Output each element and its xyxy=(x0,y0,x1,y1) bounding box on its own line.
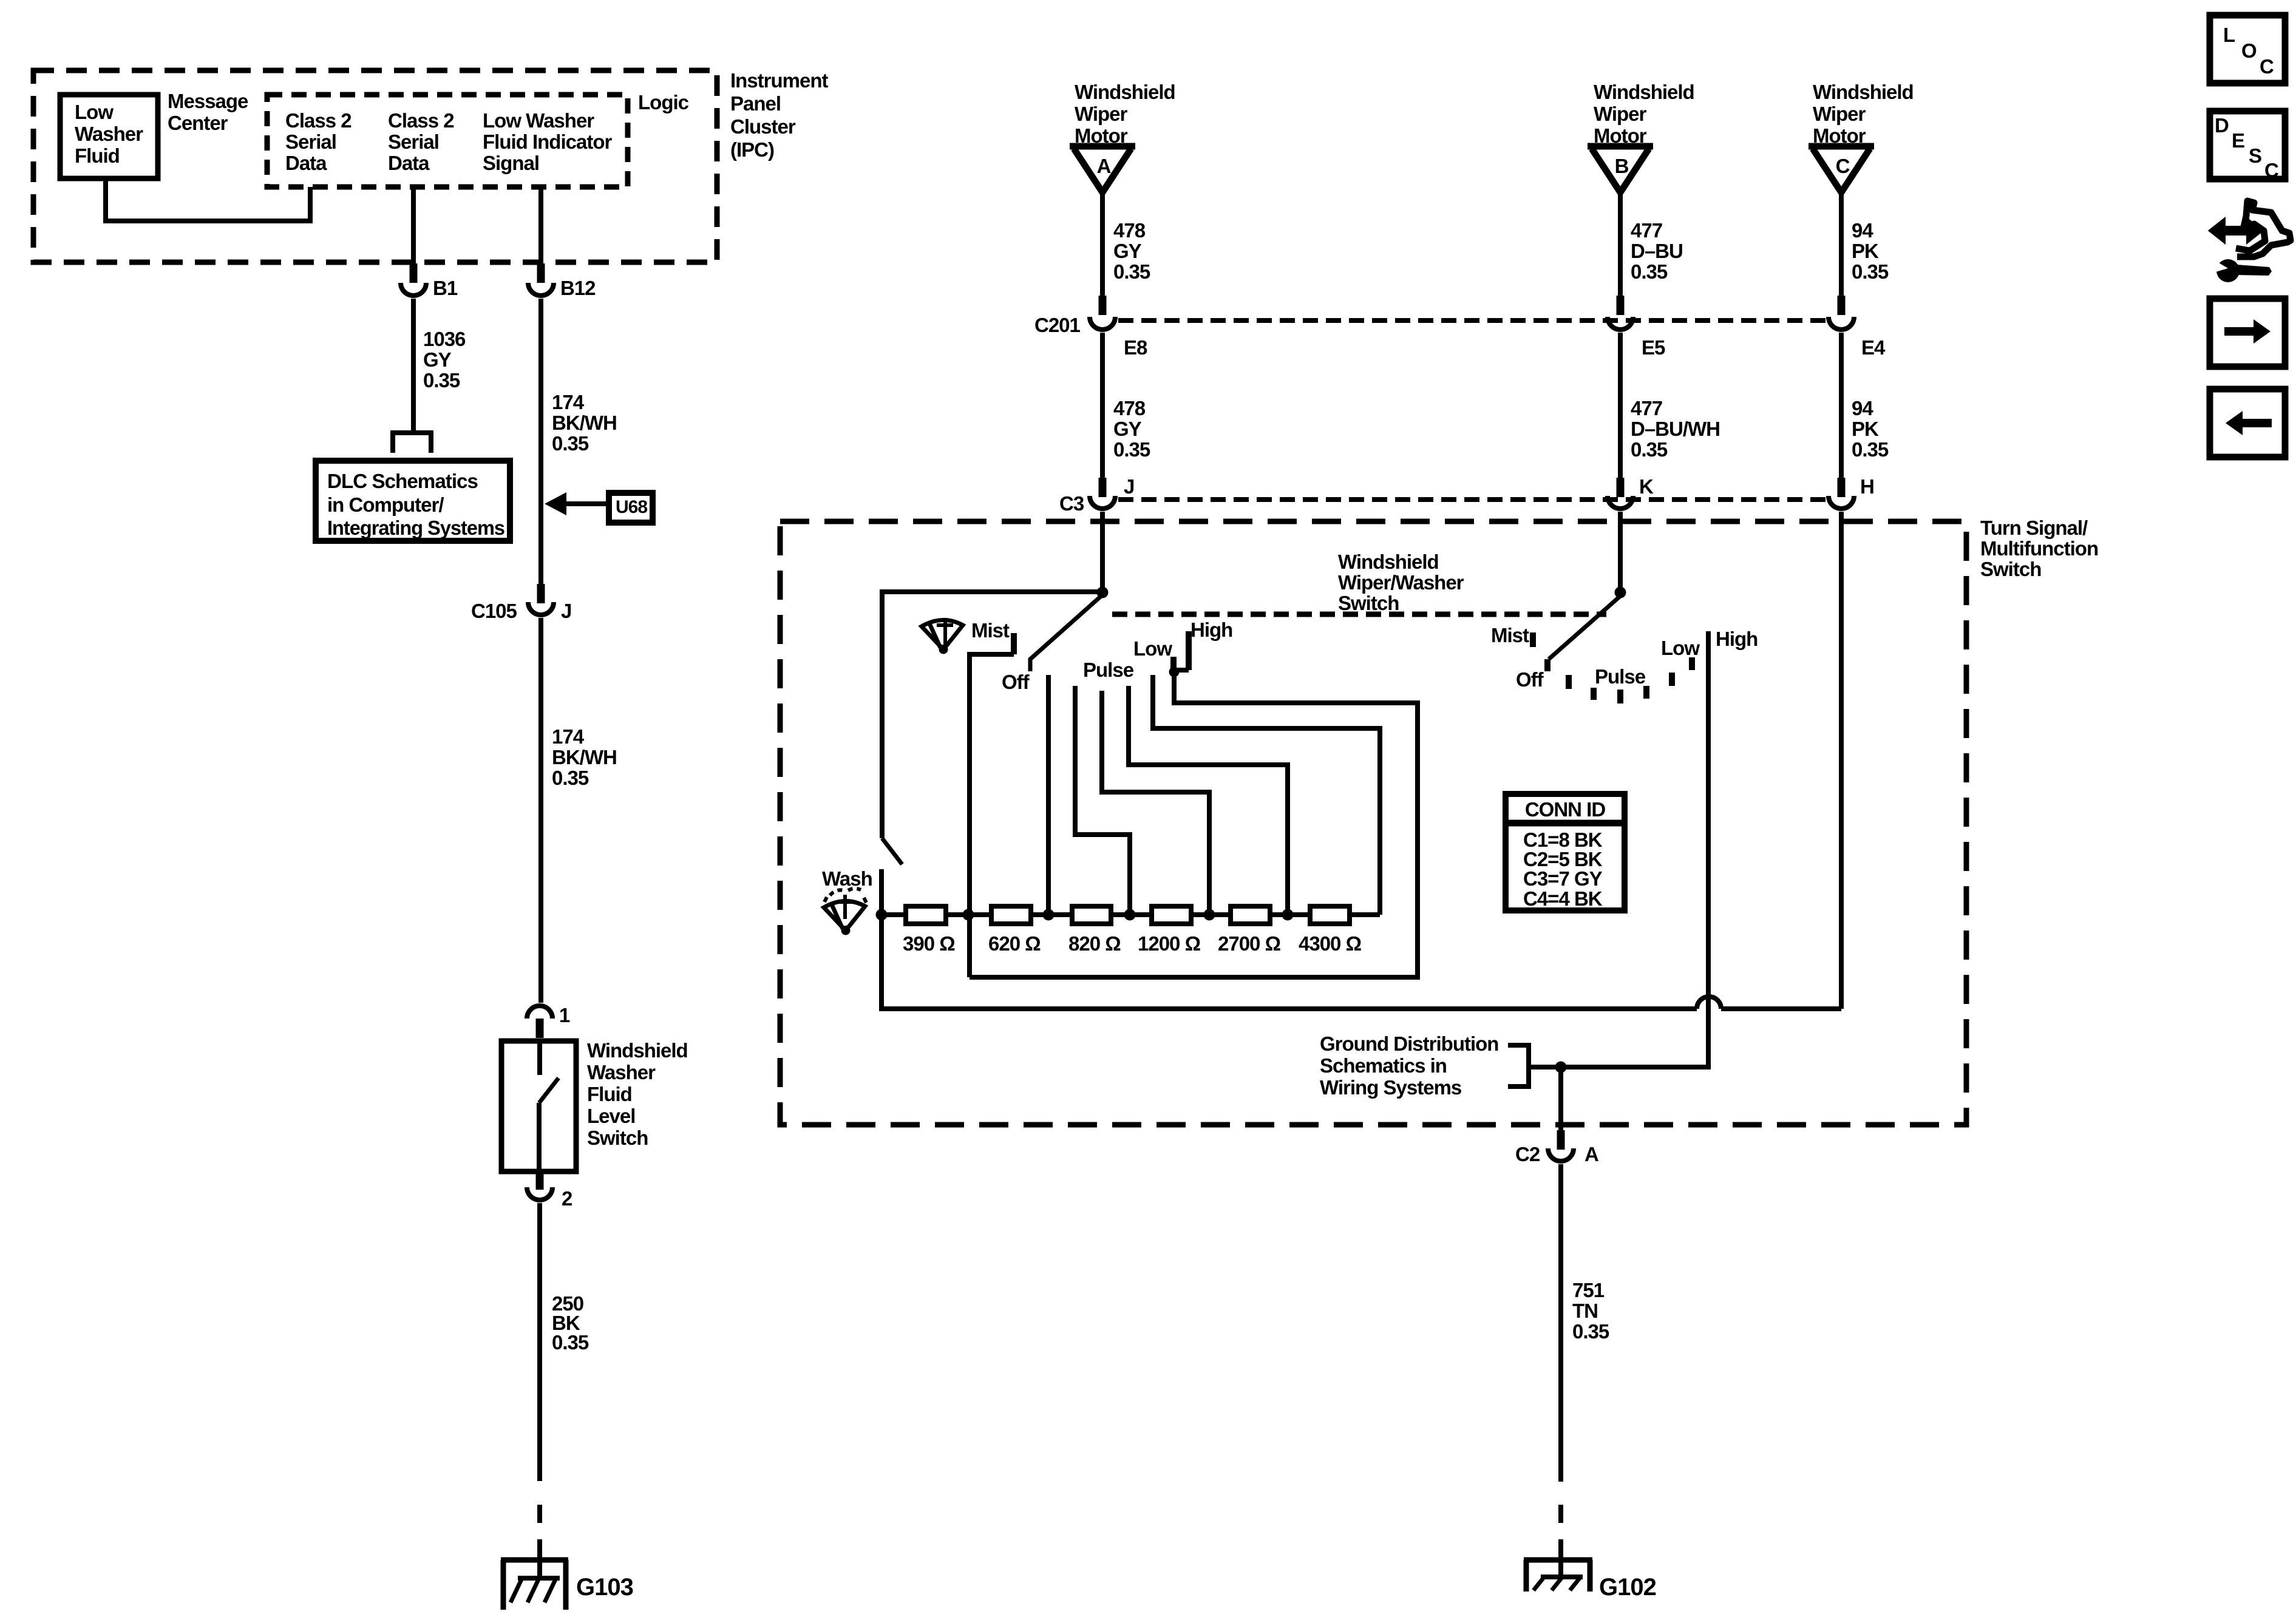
wire 1036 GY to DLC xyxy=(411,299,416,433)
svg-text:C201: C201 xyxy=(1034,314,1081,336)
wire long run to H column xyxy=(1721,1006,1841,1011)
connector B12 xyxy=(528,263,596,299)
node ground distribution junction xyxy=(1555,1062,1567,1073)
label Mist (left) xyxy=(971,619,1010,642)
svg-text:C4=4 BK: C4=4 BK xyxy=(1523,887,1603,910)
resistor 390 ohm xyxy=(903,906,955,955)
svg-text:390 Ω: 390 Ω xyxy=(903,932,955,955)
label Windshield Wiper Motor C xyxy=(1813,81,1914,147)
svg-text:Serial: Serial xyxy=(388,131,439,153)
svg-text:1036: 1036 xyxy=(423,328,466,350)
svg-text:L: L xyxy=(2223,24,2235,46)
back arrow legend box xyxy=(2210,389,2285,457)
node left switch common xyxy=(1097,587,1109,598)
svg-text:in Computer/: in Computer/ xyxy=(327,493,444,516)
High contact line down to ground run xyxy=(1529,631,1708,1067)
svg-text:Class 2: Class 2 xyxy=(388,109,454,132)
svg-text:Off: Off xyxy=(1002,671,1030,693)
svg-text:2700 Ω: 2700 Ω xyxy=(1218,932,1281,955)
node bus off tap xyxy=(1043,909,1055,921)
bus wire xyxy=(881,912,1380,917)
Logic dashed box xyxy=(267,91,689,187)
svg-text:E: E xyxy=(2232,129,2244,152)
label Low (left) xyxy=(1133,637,1172,660)
svg-text:E4: E4 xyxy=(1861,336,1886,359)
wire 478 GY lower A xyxy=(1100,333,1105,478)
wire hop over High line xyxy=(1697,997,1721,1009)
label Windshield Wiper Motor A xyxy=(1075,81,1175,147)
svg-text:Switch: Switch xyxy=(587,1127,648,1149)
svg-text:DLC Schematics: DLC Schematics xyxy=(327,470,478,492)
wiper mode selector blade xyxy=(1030,595,1102,671)
U68 callout arrow xyxy=(545,492,653,523)
motor B triangle xyxy=(1588,146,1653,192)
svg-text:2: 2 xyxy=(562,1187,572,1210)
label 477 D-BU/WH 0.35 xyxy=(1631,397,1720,461)
svg-text:477: 477 xyxy=(1631,219,1662,242)
label 751 TN 0.35 xyxy=(1572,1279,1609,1343)
svg-text:D–BU/WH: D–BU/WH xyxy=(1631,418,1720,440)
svg-text:C3: C3 xyxy=(1059,492,1084,515)
svg-text:Serial: Serial xyxy=(285,131,336,153)
svg-text:0.35: 0.35 xyxy=(1113,438,1150,461)
label Class 2 Serial Data (1) xyxy=(285,109,352,174)
Mist contact stub xyxy=(970,633,1014,977)
svg-text:D–BU: D–BU xyxy=(1631,240,1683,262)
label Message Center xyxy=(168,90,248,134)
wire motor B to E5 xyxy=(1618,192,1623,296)
svg-text:Integrating Systems: Integrating Systems xyxy=(327,517,504,539)
svg-text:1: 1 xyxy=(559,1004,570,1026)
label Turn Signal/Multifunction Switch xyxy=(1980,517,2098,580)
pulse contact 3 xyxy=(1129,686,1288,915)
svg-text:K: K xyxy=(1639,475,1654,498)
node bus wash tap xyxy=(876,909,888,921)
Off contact wire xyxy=(1046,675,1051,915)
svg-text:B: B xyxy=(1615,155,1629,177)
svg-text:Multifunction: Multifunction xyxy=(1980,537,2098,560)
svg-text:High: High xyxy=(1716,628,1758,650)
svg-text:Switch: Switch xyxy=(1338,592,1399,614)
forward arrow legend box xyxy=(2210,299,2285,367)
svg-text:G102: G102 xyxy=(1599,1574,1656,1601)
resistor 620 ohm xyxy=(988,906,1041,955)
wire junction to wash branch xyxy=(882,592,1102,838)
svg-text:Pulse: Pulse xyxy=(1083,659,1134,681)
svg-text:0.35: 0.35 xyxy=(552,432,589,455)
svg-text:94: 94 xyxy=(1852,219,1873,242)
motor A triangle xyxy=(1070,146,1135,192)
label 174 BK/WH 0.35 (lower) xyxy=(552,725,617,789)
svg-text:C105: C105 xyxy=(471,600,517,622)
label Low (right) xyxy=(1661,637,1700,659)
svg-text:Switch: Switch xyxy=(1980,558,2041,580)
Instrument Panel Cluster dashed box xyxy=(33,70,717,262)
svg-text:0.35: 0.35 xyxy=(1852,260,1889,283)
pulse contact 4 xyxy=(1153,675,1380,915)
right selector blade xyxy=(1549,596,1620,659)
svg-text:174: 174 xyxy=(552,391,585,413)
node bus pulse tap 2 xyxy=(1204,909,1215,921)
svg-text:94: 94 xyxy=(1852,397,1873,419)
wire J into switch xyxy=(1100,512,1105,592)
ground distribution bracket xyxy=(1508,1045,1529,1086)
windshield washer fluid level switch box xyxy=(501,1041,576,1171)
wire 174 BK/WH lower xyxy=(538,618,543,1003)
wire from Low Washer Fluid box to Class 2 Serial Data xyxy=(106,178,310,221)
connector pin 1 xyxy=(527,1004,570,1038)
resistor 2700 ohm xyxy=(1218,906,1281,955)
Low contact stub xyxy=(1170,657,1177,670)
svg-text:B12: B12 xyxy=(560,277,596,299)
label Windshield Wiper Motor B xyxy=(1594,81,1694,147)
Turn Signal/Multifunction Switch dashed box xyxy=(780,521,1966,1125)
svg-text:Wiper: Wiper xyxy=(1594,103,1647,125)
svg-text:0.35: 0.35 xyxy=(1631,260,1668,283)
Low Washer Fluid indicator box xyxy=(60,95,158,178)
wiper icon wash xyxy=(824,889,866,935)
svg-text:U68: U68 xyxy=(616,497,647,517)
svg-text:Turn Signal/: Turn Signal/ xyxy=(1980,517,2088,539)
svg-text:0.35: 0.35 xyxy=(1631,438,1668,461)
label Windshield Washer Fluid Level Switch xyxy=(587,1039,688,1149)
svg-text:Class 2: Class 2 xyxy=(285,109,352,132)
svg-text:High: High xyxy=(1190,619,1232,641)
label Mist (right) xyxy=(1491,624,1529,646)
svg-text:PK: PK xyxy=(1852,240,1879,262)
svg-text:Washer: Washer xyxy=(75,123,143,145)
label Low Washer Fluid Indicator Signal xyxy=(483,109,612,174)
svg-text:A: A xyxy=(1584,1143,1598,1165)
svg-text:G103: G103 xyxy=(576,1574,633,1601)
svg-text:Windshield: Windshield xyxy=(587,1039,688,1062)
connector B1 xyxy=(401,263,458,299)
connector H xyxy=(1829,475,1874,509)
svg-text:C: C xyxy=(2264,159,2278,181)
svg-text:Fluid: Fluid xyxy=(75,144,120,167)
node bus mist tap xyxy=(963,909,974,921)
svg-text:751: 751 xyxy=(1572,1279,1605,1301)
label 1036 GY 0.35 xyxy=(423,328,466,392)
label 478 GY 0.35 (lower A) xyxy=(1113,397,1150,461)
svg-text:Off: Off xyxy=(1516,668,1544,691)
connector C2 / A xyxy=(1515,1130,1598,1165)
label Instrument Panel Cluster (IPC) xyxy=(730,69,829,161)
wire motor A to C201 xyxy=(1100,192,1105,296)
svg-text:E8: E8 xyxy=(1124,336,1147,359)
svg-text:0.35: 0.35 xyxy=(1113,260,1150,283)
svg-text:E5: E5 xyxy=(1642,336,1665,359)
right blade tip tick xyxy=(1544,659,1550,671)
svg-text:GY: GY xyxy=(1113,418,1142,440)
connector C201 / E8 xyxy=(1034,296,1147,359)
svg-text:Mist: Mist xyxy=(971,619,1010,642)
connector K xyxy=(1608,475,1654,509)
svg-text:C3=7 GY: C3=7 GY xyxy=(1523,867,1603,890)
label Off (right) xyxy=(1516,668,1544,691)
svg-text:0.35: 0.35 xyxy=(423,369,460,392)
svg-text:GY: GY xyxy=(1113,240,1142,262)
svg-text:477: 477 xyxy=(1631,397,1662,419)
svg-text:(IPC): (IPC) xyxy=(730,138,774,161)
svg-text:Data: Data xyxy=(388,152,430,174)
LOC legend box xyxy=(2210,15,2285,83)
wiper icon mist xyxy=(922,618,963,654)
svg-text:1200 Ω: 1200 Ω xyxy=(1138,932,1201,955)
dashed wire segment to G102 xyxy=(1558,1505,1563,1578)
svg-text:H: H xyxy=(1860,475,1874,498)
pulse contact 2 xyxy=(1102,691,1209,915)
svg-text:0.35: 0.35 xyxy=(552,1331,589,1354)
svg-text:Instrument: Instrument xyxy=(730,69,829,92)
connector pin 2 xyxy=(527,1173,572,1210)
label Wash xyxy=(822,867,872,890)
svg-text:Schematics in: Schematics in xyxy=(1320,1054,1447,1077)
label Pulse (right) xyxy=(1595,665,1646,688)
DESC legend box xyxy=(2210,111,2285,181)
label Class 2 Serial Data (2) xyxy=(388,109,454,174)
svg-text:Windshield: Windshield xyxy=(1075,81,1175,103)
svg-text:Low Washer: Low Washer xyxy=(483,109,594,132)
label Windshield Wiper/Washer Switch xyxy=(1338,551,1464,614)
svg-text:C2: C2 xyxy=(1515,1143,1540,1165)
dashed wire segment to G103 xyxy=(537,1505,542,1578)
connector E4 xyxy=(1829,296,1886,359)
svg-text:Wiper: Wiper xyxy=(1813,103,1866,125)
svg-text:Wiper/Washer: Wiper/Washer xyxy=(1338,571,1464,594)
svg-text:C: C xyxy=(2260,55,2274,78)
label High (left) xyxy=(1190,619,1232,641)
Low/High tie wiring xyxy=(970,670,1418,977)
pulse contact 1 xyxy=(1075,686,1130,915)
High contact stub xyxy=(1186,631,1192,670)
label 477 D-BU 0.35 xyxy=(1631,219,1683,283)
svg-text:BK/WH: BK/WH xyxy=(552,746,617,768)
wash switch blade xyxy=(882,838,902,864)
svg-text:Low: Low xyxy=(75,101,114,123)
svg-text:Fluid: Fluid xyxy=(587,1083,632,1105)
connector C105 / J xyxy=(471,584,571,622)
node Low/High junction xyxy=(1169,667,1180,677)
wire IPC to B12 xyxy=(538,187,543,263)
svg-text:A: A xyxy=(1097,155,1111,177)
svg-text:Wiring Systems: Wiring Systems xyxy=(1320,1076,1461,1099)
label 94 PK 0.35 (upper) xyxy=(1852,219,1889,283)
Low tick (right) xyxy=(1689,657,1695,670)
svg-text:Level: Level xyxy=(587,1105,635,1127)
connector C3 / J xyxy=(1059,475,1134,515)
wire H down into switch box xyxy=(1839,512,1844,1009)
node right switch common xyxy=(1615,587,1626,598)
wire 751 TN xyxy=(1558,1164,1563,1482)
label Ground Distribution Schematics in Wiring Systems xyxy=(1320,1032,1498,1099)
svg-text:0.35: 0.35 xyxy=(552,767,589,789)
svg-text:S: S xyxy=(2249,144,2261,167)
connector E5 xyxy=(1608,296,1665,359)
svg-text:Panel: Panel xyxy=(730,92,781,115)
node bus pulse tap 3 xyxy=(1282,909,1294,921)
wire 250 BK xyxy=(537,1203,542,1481)
svg-text:0.35: 0.35 xyxy=(1852,438,1889,461)
wire wash tap down to long run xyxy=(881,915,1697,1009)
connector row C3 dashed line xyxy=(1118,497,1826,502)
label 94 PK 0.35 (lower) xyxy=(1852,397,1889,461)
Mist tick (right) xyxy=(1530,632,1536,647)
svg-text:C: C xyxy=(1836,155,1850,177)
mechanical link dashed line xyxy=(1112,612,1606,617)
svg-text:O: O xyxy=(2241,39,2257,62)
svg-text:Logic: Logic xyxy=(638,91,689,114)
svg-text:BK/WH: BK/WH xyxy=(552,412,617,434)
svg-text:Low: Low xyxy=(1661,637,1700,659)
svg-text:J: J xyxy=(561,600,571,622)
vehicle/wrench legend icon xyxy=(2210,201,2291,282)
svg-text:620 Ω: 620 Ω xyxy=(988,932,1041,955)
label Pulse (left) xyxy=(1083,659,1134,681)
wire motor C to E4 xyxy=(1839,192,1844,296)
connector row C201 dashed line xyxy=(1118,318,1826,323)
label High (right) xyxy=(1716,628,1758,650)
svg-text:4300 Ω: 4300 Ω xyxy=(1299,932,1362,955)
svg-text:Data: Data xyxy=(285,152,327,174)
svg-text:Signal: Signal xyxy=(483,152,539,174)
svg-text:478: 478 xyxy=(1113,219,1146,242)
svg-text:Windshield: Windshield xyxy=(1594,81,1694,103)
svg-text:Message: Message xyxy=(168,90,248,112)
resistor 820 ohm xyxy=(1068,906,1121,955)
svg-text:D: D xyxy=(2215,114,2229,137)
svg-text:Mist: Mist xyxy=(1491,624,1529,646)
svg-text:Wash: Wash xyxy=(822,867,872,890)
svg-text:Fluid Indicator: Fluid Indicator xyxy=(483,131,612,153)
label 250 BK 0.35 xyxy=(552,1292,589,1354)
label 174 BK/WH 0.35 (upper) xyxy=(552,391,617,455)
svg-text:Low: Low xyxy=(1133,637,1172,660)
svg-text:Ground Distribution: Ground Distribution xyxy=(1320,1032,1498,1055)
svg-text:Cluster: Cluster xyxy=(730,115,796,138)
pulse ticks (right) xyxy=(1569,673,1672,703)
wire K into switch xyxy=(1618,512,1623,592)
svg-text:J: J xyxy=(1124,475,1134,498)
resistor 4300 ohm xyxy=(1299,906,1362,955)
svg-text:820 Ω: 820 Ω xyxy=(1068,932,1121,955)
svg-text:Windshield: Windshield xyxy=(1813,81,1914,103)
motor C triangle xyxy=(1809,146,1874,192)
ground G102 xyxy=(1524,1560,1656,1601)
DLC Schematics box xyxy=(316,461,510,541)
label Off (left) xyxy=(1002,671,1030,693)
svg-text:B1: B1 xyxy=(433,277,458,299)
DLC pigtail bracket xyxy=(393,433,431,453)
svg-text:Pulse: Pulse xyxy=(1595,665,1646,688)
ground G103 xyxy=(501,1560,633,1610)
resistor 1200 ohm xyxy=(1138,906,1201,955)
svg-text:PK: PK xyxy=(1852,418,1879,440)
wire 174 BK/WH upper xyxy=(538,299,543,584)
wire 94 PK lower xyxy=(1839,333,1844,478)
svg-text:Wiper: Wiper xyxy=(1075,103,1128,125)
svg-text:174: 174 xyxy=(552,725,585,748)
svg-text:Center: Center xyxy=(168,112,228,134)
wire junction down to C2 xyxy=(1558,1067,1563,1130)
node bus pulse tap 1 xyxy=(1124,909,1136,921)
svg-text:478: 478 xyxy=(1113,397,1146,419)
svg-text:CONN ID: CONN ID xyxy=(1525,798,1606,821)
svg-text:GY: GY xyxy=(423,348,452,371)
wire IPC to B1 xyxy=(411,187,416,263)
svg-text:Washer: Washer xyxy=(587,1061,656,1083)
label 478 GY 0.35 (upper A) xyxy=(1113,219,1150,283)
wash contact wire xyxy=(879,869,884,915)
svg-text:0.35: 0.35 xyxy=(1572,1320,1609,1343)
svg-text:TN: TN xyxy=(1572,1300,1598,1322)
wire 477 lower B xyxy=(1618,333,1623,478)
svg-text:Windshield: Windshield xyxy=(1338,551,1439,573)
